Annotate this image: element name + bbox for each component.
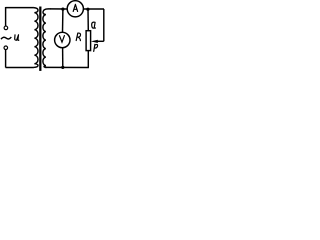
wire secondary top to ammeter — [50, 8, 67, 10]
tilde of source label — [1, 37, 11, 39]
wire ammeter to right corner — [83, 8, 104, 10]
wire right edge vertical — [103, 9, 105, 41]
wire left vertical upper — [5, 7, 7, 26]
transformer primary winding L1 — [34, 8, 38, 68]
transformer secondary winding L2 — [43, 9, 51, 68]
transformer core — [39, 7, 41, 71]
label R — [76, 33, 80, 41]
wiper arrow shaft — [97, 40, 104, 42]
label a — [92, 22, 96, 28]
wire left vertical lower — [5, 50, 7, 68]
label A of ammeter — [73, 4, 77, 11]
junction dot top left of ammeter — [61, 8, 64, 11]
label u — [15, 35, 19, 41]
wire top-left horizontal — [6, 7, 34, 9]
wire voltmeter branch upper — [62, 9, 64, 32]
label p — [94, 44, 98, 51]
terminal bottom — [4, 46, 8, 50]
wire bottom-left horizontal — [6, 67, 34, 69]
label V of voltmeter — [60, 36, 65, 43]
junction dot node a — [86, 8, 89, 11]
wire node a down to resistor top — [87, 9, 89, 31]
voltmeter V circle — [55, 32, 70, 47]
wire resistor bottom down — [87, 51, 89, 68]
wiper arrowhead — [91, 40, 98, 43]
junction dot bottom voltmeter — [61, 66, 64, 69]
wire bottom horizontal secondary — [45, 66, 89, 68]
terminal top — [4, 26, 8, 30]
wire voltmeter branch lower — [62, 48, 64, 68]
ammeter A circle — [67, 1, 83, 17]
resistor R box — [86, 31, 91, 51]
